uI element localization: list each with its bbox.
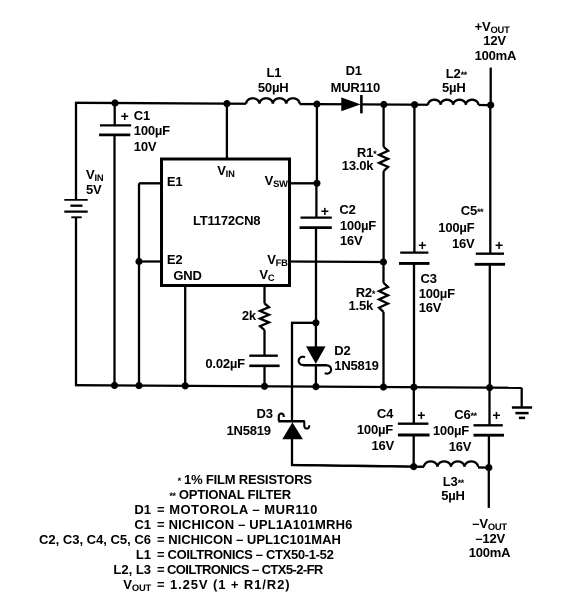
- diode D1 cathode bar: [360, 95, 363, 113]
- node ground rail GND pin junction: [182, 382, 189, 389]
- label C5 plus: [495, 238, 503, 252]
- wire 0.02uF to ground rail: [263, 366, 265, 387]
- wire ground rail to C6: [488, 388, 490, 426]
- diode D3 schottky left hook: [279, 414, 284, 421]
- note VOUT formula: [0, 578, 151, 591]
- node ground rail D2 junction: [312, 383, 319, 390]
- label C1 plus: [121, 109, 129, 123]
- label L1: [267, 66, 282, 79]
- label L3 value: [441, 489, 465, 502]
- label R1: [357, 146, 376, 159]
- capacitor C1 bottom plate: [99, 134, 130, 137]
- diode D2 cathode bar: [303, 364, 327, 367]
- label 5V: [86, 183, 102, 196]
- label D1 part: [331, 81, 380, 94]
- note L1 source: [0, 548, 151, 561]
- diode D2 triangle: [307, 347, 325, 363]
- label C6 voltage: [449, 440, 472, 453]
- node ground rail C1 junction: [111, 382, 118, 389]
- battery V1 plate long: [64, 210, 87, 212]
- diode D3 cathode bar: [278, 420, 305, 423]
- wire C4 to bottom rail: [413, 435, 415, 467]
- wire -VOUT terminal: [488, 468, 490, 508]
- label C1 value: [134, 124, 170, 137]
- node ground rail R2 junction: [380, 383, 387, 390]
- wire R1 top lead: [382, 105, 384, 147]
- wire C3 to ground rail: [413, 263, 415, 387]
- capacitor C4 bottom plate: [398, 434, 430, 437]
- label L2 value: [442, 81, 466, 94]
- node ground rail E-line junction: [135, 382, 142, 389]
- label -VOUT -12V: [475, 532, 505, 545]
- label D2 part: [334, 359, 378, 372]
- wire VSW pin: [289, 182, 317, 184]
- resistor R3 2k: [260, 303, 269, 330]
- label C5 value: [438, 221, 474, 234]
- wire C2 node to D2: [315, 323, 317, 348]
- diode D1 triangle: [342, 98, 359, 110]
- node bottom rail -VOUT junction: [485, 464, 492, 471]
- wire D2 anode to ground rail: [315, 366, 317, 386]
- wire C2 bottom lead: [315, 228, 317, 323]
- wire C6 to bottom rail: [488, 435, 490, 467]
- node E2 junction: [135, 258, 142, 265]
- wire C5 to ground rail: [489, 264, 491, 387]
- diode D3 schottky right hook: [304, 421, 309, 428]
- node C2/D2/D3 junction: [312, 319, 319, 326]
- label +VOUT 12V: [483, 34, 506, 47]
- note D1 source: [0, 503, 151, 516]
- capacitor C1 top plate: [100, 124, 131, 126]
- note L2 L3 source: [0, 563, 151, 576]
- wire D1 cathode to L2: [363, 103, 428, 106]
- label C2 value: [340, 219, 376, 232]
- wire VC pin lead: [263, 286, 265, 304]
- capacitor C5 top plate: [476, 253, 504, 255]
- wire bottom rail left segment: [292, 465, 424, 467]
- label C2 plus: [321, 204, 329, 218]
- wire L3 to -VOUT node: [478, 466, 489, 468]
- note C2-C6 source: [0, 533, 151, 546]
- wire VFB pin to R1/R2 node: [289, 260, 383, 263]
- label pin E1: [167, 175, 183, 188]
- wire C1 top lead: [114, 103, 116, 125]
- node top rail R1 junction: [380, 101, 387, 108]
- label L2: [446, 67, 467, 80]
- diode D2 schottky left hook: [299, 357, 305, 365]
- wire R2 bottom lead: [382, 312, 384, 387]
- wire R2 top lead: [382, 262, 384, 283]
- node top rail VSW junction: [313, 101, 320, 108]
- label 2k: [242, 309, 256, 322]
- label pin VSW: [265, 174, 288, 187]
- capacitor C6 bottom plate: [474, 434, 505, 437]
- wire D3 anode to bottom rail corner: [292, 439, 424, 467]
- label R2 value: [349, 299, 374, 312]
- label R2: [356, 286, 375, 299]
- wire E2 pin: [139, 260, 162, 262]
- label C6 plus: [492, 408, 500, 422]
- label C5 voltage: [452, 237, 475, 250]
- capacitor C3 bottom plate: [399, 262, 430, 265]
- capacitor C6 top plate: [474, 424, 503, 426]
- node ground rail C5/C6 junction: [486, 384, 493, 391]
- label VIN: [86, 168, 103, 181]
- wire top rail left segment (battery + to L1): [76, 102, 246, 105]
- wire ground rail to C4: [413, 387, 415, 424]
- label +VOUT 100mA: [475, 49, 517, 62]
- wire 2k to 0.02uF cap: [263, 330, 265, 356]
- label D2: [334, 344, 350, 357]
- wire C2 node to D3 top: [292, 323, 316, 420]
- label C4 plus: [417, 408, 425, 422]
- label 0.02uF: [205, 357, 245, 370]
- label D3: [257, 407, 273, 420]
- label D1: [346, 64, 362, 77]
- battery V1 VIN 5V plate long top: [64, 199, 87, 201]
- label -VOUT terminal: [472, 517, 507, 530]
- wire top rail to C3: [413, 105, 415, 253]
- label C4 voltage: [372, 439, 395, 452]
- label L1 value: [258, 81, 289, 94]
- node VSW junction: [313, 180, 320, 187]
- wire C1 bottom lead to ground rail: [113, 135, 115, 386]
- node VFB junction: [380, 258, 387, 265]
- label C3 voltage: [419, 301, 442, 314]
- label C2 name: [339, 203, 355, 216]
- wire left rail (battery top lead): [75, 102, 77, 200]
- wire GND pin to ground rail: [184, 286, 186, 386]
- wire E1 pin: [139, 182, 162, 184]
- node ground rail C3/C4 junction: [410, 384, 417, 391]
- ground symbol line 1: [512, 406, 532, 409]
- capacitor C4 top plate: [398, 423, 429, 425]
- diode D3 triangle: [283, 423, 302, 438]
- ground symbol line 2: [515, 412, 528, 415]
- label C4 value: [357, 423, 393, 436]
- capacitor C7 0.02uF top plate: [249, 355, 277, 357]
- wire +VOUT node to C5: [489, 105, 491, 254]
- wire ground rail to ground symbol: [521, 388, 523, 408]
- note 1% film resistors: [178, 473, 312, 486]
- inductor L3: [424, 461, 478, 467]
- wire ground rail: [76, 385, 522, 388]
- label pin VIN: [217, 164, 234, 177]
- wire R1 bottom lead: [382, 171, 384, 262]
- wire L1 to D1 anode: [300, 103, 342, 106]
- label pin E2: [167, 253, 183, 266]
- capacitor C5 bottom plate: [475, 263, 506, 266]
- label C2 voltage: [340, 234, 363, 247]
- label D3 part: [227, 424, 271, 437]
- label C3 name: [421, 272, 437, 285]
- ground symbol line 3: [519, 417, 525, 420]
- wire L2 to +VOUT node: [478, 104, 490, 106]
- label C1 voltage: [134, 140, 157, 153]
- label U1 part number: [193, 214, 260, 227]
- label pin VC: [259, 268, 274, 281]
- wire battery - to ground rail: [75, 217, 77, 386]
- battery V1 plate short: [70, 205, 82, 207]
- wire VSW node to C2: [315, 183, 317, 217]
- label +VOUT terminal: [475, 20, 510, 33]
- label -VOUT 100mA: [469, 546, 511, 559]
- label C3 value: [419, 287, 455, 300]
- label pin GND: [173, 269, 201, 282]
- label C6 name: [454, 408, 476, 421]
- label C3 plus: [418, 238, 426, 252]
- resistor R1 13.0k: [379, 147, 388, 171]
- capacitor C3 top plate: [400, 251, 428, 253]
- inductor L2: [428, 100, 478, 105]
- label C5 name: [461, 204, 483, 217]
- capacitor C2 top plate: [301, 216, 332, 218]
- label pin VFB: [267, 253, 288, 266]
- capacitor C2 bottom plate: [300, 226, 332, 229]
- label R1 value: [342, 159, 374, 172]
- wire E1 to E2 vertical: [138, 183, 140, 261]
- op-amp U1 LT1172CN8 body: [162, 159, 290, 286]
- label C1 name: [134, 109, 150, 122]
- note C1 source: [0, 518, 151, 531]
- resistor R2 1.5k: [379, 283, 388, 312]
- node ground rail 0.02uF junction: [261, 383, 268, 390]
- note optional filter: [169, 488, 291, 501]
- node top rail +VOUT junction: [487, 102, 494, 109]
- label C6 value: [433, 424, 469, 437]
- node top rail VIN junction: [223, 100, 230, 107]
- battery V1 plate short bottom: [71, 216, 81, 218]
- wire top rail to VSW node: [316, 104, 318, 183]
- label L3: [443, 475, 464, 488]
- node bottom rail C4 junction: [410, 463, 417, 470]
- diode D2 schottky right hook: [325, 365, 331, 373]
- wire VIN pin to top rail: [226, 104, 228, 160]
- label C4 name: [377, 407, 393, 420]
- node top rail C1 junction: [111, 99, 118, 106]
- inductor L1: [246, 98, 300, 103]
- wire E2 node to ground rail: [138, 261, 140, 386]
- wire +VOUT terminal: [490, 68, 492, 106]
- node top rail C3 junction: [411, 101, 418, 108]
- capacitor C7 0.02uF bottom plate: [249, 364, 279, 367]
